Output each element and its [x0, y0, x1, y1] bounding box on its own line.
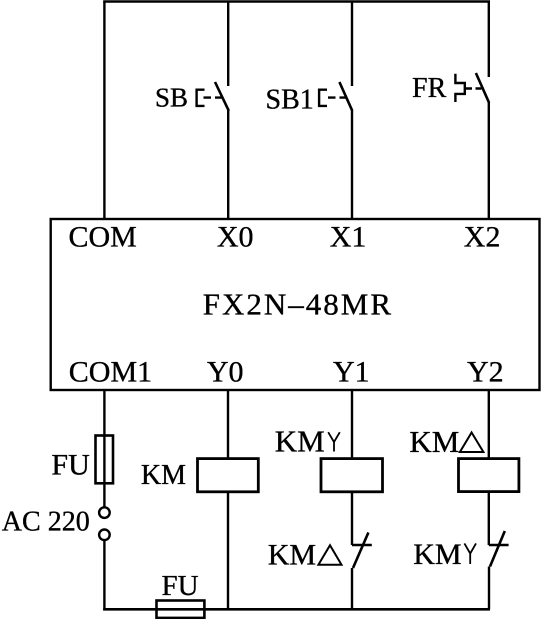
svg-text:X2: X2: [464, 220, 501, 253]
svg-text:KM: KM: [268, 539, 316, 572]
NC contact KM-delta bar: [352, 544, 372, 546]
wire Y0 branch lower: [227, 492, 229, 610]
svg-text:FX2N–48MR: FX2N–48MR: [203, 286, 393, 321]
wire X2 branch top: [488, 2, 490, 78]
wire X2 branch bottom: [488, 103, 490, 220]
wire Y2 branch: [488, 390, 490, 459]
wire COM vertical: [103, 2, 105, 220]
wire Y1 branch: [351, 390, 353, 459]
PLC box U1 FX2N-48MR: [51, 219, 540, 390]
coil KM: [198, 459, 259, 492]
svg-text:KM: KM: [275, 424, 325, 459]
svg-text:KM: KM: [413, 538, 461, 571]
wire top rail: [103, 0, 490, 3]
wire X0 branch top: [227, 2, 229, 87]
NC contact KM-delta slash: [353, 533, 368, 569]
svg-text:AC 220: AC 220: [2, 507, 90, 538]
wire bottom rail: [103, 608, 490, 611]
NC contact KM-star slash: [490, 531, 505, 567]
svg-text:X1: X1: [330, 220, 367, 253]
svg-text:SB1: SB1: [266, 85, 314, 116]
wire COM1 branch lower: [103, 540, 105, 610]
svg-text:X0: X0: [217, 220, 254, 253]
svg-text:COM1: COM1: [69, 356, 152, 389]
wire X1 branch top: [351, 2, 353, 87]
svg-text:KM: KM: [141, 460, 186, 491]
coil KM-star: [321, 459, 383, 492]
pushbutton SB1 actuator: [319, 90, 327, 106]
pushbutton SB1 contact: [339, 82, 352, 111]
fuse FU horizontal: [157, 601, 205, 618]
wire Y2 branch lower: [488, 567, 490, 610]
NC contact KM-star bar: [489, 544, 509, 546]
star symbol Y: [328, 432, 340, 451]
wire Y1 branch lower: [351, 568, 353, 609]
terminal circle lower: [99, 530, 110, 541]
svg-text:FU: FU: [162, 570, 199, 602]
svg-text:FR: FR: [412, 73, 447, 104]
svg-text:SB: SB: [155, 83, 188, 113]
delta triangle top: [460, 433, 484, 453]
wire Y0 branch: [227, 390, 229, 459]
wire Y1 branch middle: [351, 492, 353, 545]
svg-text:Y0: Y0: [207, 356, 244, 389]
wire COM1 branch: [103, 390, 105, 507]
svg-text:FU: FU: [51, 449, 90, 482]
svg-text:KM: KM: [409, 424, 459, 459]
fuse FU vertical: [96, 436, 114, 484]
thermal relay FR contact: [476, 73, 489, 103]
wire Y2 branch middle: [488, 492, 490, 545]
pushbutton SB actuator: [197, 90, 205, 106]
svg-text:Y1: Y1: [333, 356, 370, 389]
coil KM-delta: [459, 459, 519, 492]
wire X1 branch bottom: [351, 111, 353, 220]
thermal relay FR element: [455, 74, 464, 102]
pushbutton SB contact: [215, 82, 229, 111]
svg-text:Y2: Y2: [467, 356, 504, 389]
terminal circle upper: [99, 507, 110, 518]
wire X0 branch bottom: [227, 111, 229, 220]
svg-text:COM: COM: [69, 220, 137, 253]
delta triangle bottom: [318, 545, 341, 565]
star symbol Y bottom: [464, 543, 476, 564]
